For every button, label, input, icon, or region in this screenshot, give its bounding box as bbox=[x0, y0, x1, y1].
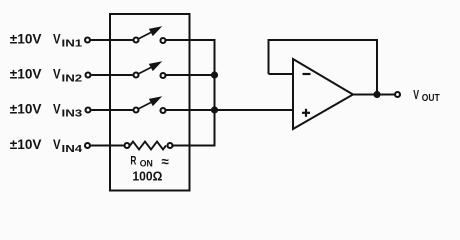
wire VIN4 to resistor RON bbox=[91, 145, 124, 147]
svg-text:IN1: IN1 bbox=[62, 38, 83, 49]
svg-text:100Ω: 100Ω bbox=[132, 168, 162, 183]
switch S2 bbox=[134, 61, 166, 78]
resistor RON bbox=[125, 142, 173, 150]
wire feedback to inverting input bbox=[269, 73, 294, 75]
switch box outline bbox=[110, 14, 190, 191]
svg-text:±10V: ±10V bbox=[10, 32, 42, 47]
wire VIN1 to switch S1 bbox=[91, 39, 133, 41]
wire VIN3 to switch S3 bbox=[91, 109, 132, 111]
wire S2 to bus junction bbox=[166, 74, 216, 76]
op-amp U1 bbox=[293, 59, 353, 129]
wire S3 to op-amp noninverting input bbox=[166, 109, 293, 111]
label ±10V VIN1 bbox=[10, 32, 83, 50]
wire VIN2 to switch S2 bbox=[91, 74, 132, 76]
svg-text:ON: ON bbox=[140, 159, 153, 169]
svg-text:±10V: ±10V bbox=[10, 137, 42, 152]
svg-text:±10V: ±10V bbox=[10, 67, 42, 82]
wire RON to bus bbox=[173, 145, 216, 147]
svg-text:V: V bbox=[53, 67, 61, 82]
junction node output bbox=[373, 91, 380, 98]
label RON approx bbox=[130, 154, 169, 169]
wire op-amp output bbox=[353, 94, 394, 96]
input terminal VIN3 bbox=[86, 108, 91, 113]
svg-text:IN3: IN3 bbox=[62, 108, 83, 119]
label 100 ohm bbox=[132, 168, 162, 183]
switch S3 bbox=[134, 96, 166, 113]
label ±10V VIN2 bbox=[10, 67, 83, 85]
input terminal VIN1 bbox=[85, 38, 90, 43]
svg-text:V: V bbox=[53, 32, 61, 47]
svg-text:V: V bbox=[53, 137, 61, 152]
svg-text:OUT: OUT bbox=[422, 93, 440, 104]
svg-text:±10V: ±10V bbox=[10, 102, 42, 117]
feedback wire (output to inverting input) bbox=[269, 40, 378, 95]
label ±10V VIN3 bbox=[10, 102, 83, 120]
svg-text:R: R bbox=[130, 156, 136, 168]
label ±10V VIN4 bbox=[10, 137, 83, 155]
svg-text:V: V bbox=[413, 87, 419, 102]
wire S1 to bus bbox=[166, 39, 216, 41]
label VOUT bbox=[413, 87, 440, 104]
junction node row3 bbox=[211, 106, 218, 113]
input terminal VIN2 bbox=[86, 73, 91, 78]
input terminal VIN4 bbox=[85, 143, 90, 148]
bus wire (vertical) bbox=[214, 39, 216, 146]
svg-text:IN4: IN4 bbox=[62, 144, 83, 155]
svg-text:≈: ≈ bbox=[162, 154, 170, 169]
junction node row2 bbox=[211, 71, 218, 78]
switch S1 bbox=[134, 26, 166, 43]
output terminal VOUT bbox=[395, 92, 400, 97]
svg-text:IN2: IN2 bbox=[62, 73, 83, 84]
svg-text:V: V bbox=[53, 102, 61, 117]
